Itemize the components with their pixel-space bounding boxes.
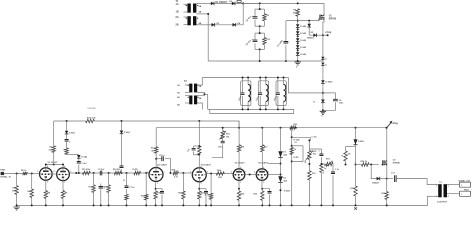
net flag box [237,0,241,2]
diode D4 [233,23,236,27]
svg-text:D 0A2: D 0A2 [300,46,307,49]
wire D6 to source [380,178,387,180]
junction V3 plate node [155,158,157,160]
junction center tap corner [207,13,209,15]
capacitor C L2 [258,93,262,95]
wire box1-box2 [259,26,261,33]
wire U1 gate stub [318,19,320,21]
R2 branch wire [263,33,265,37]
wire amp ground rail [17,196,431,205]
zener diode DZ7 [321,80,325,83]
junction plate V2 [62,164,64,166]
wire T1 center tap [197,14,209,61]
junction sig d [126,172,128,174]
wire fb branch [182,173,184,191]
svg-text:R33: R33 [350,188,354,190]
junction L2 coil top [265,77,267,79]
svg-text:1N4007: 1N4007 [307,37,315,40]
wire V1 cathode [45,180,47,190]
wire R31 gnd [308,180,310,205]
junction R32 gnd [320,204,322,206]
junction V4 RC top [198,145,200,147]
wire DZ13 top [355,128,357,139]
wire shunt v126 [126,173,128,186]
wire coupling branch [156,158,161,160]
wire sig e drop [210,174,212,194]
capacitor C5 [65,140,69,142]
wire V6 cath stub [261,189,263,191]
T2 left stub 1 [185,84,189,86]
wire R17 to plate node [155,153,157,169]
trimmer RV3 arrow [326,161,332,167]
wire R38 bottom [345,161,347,165]
T2 phase dot b [197,85,198,86]
wire R33 top [355,165,357,187]
junction C16 gnd [332,204,334,206]
wire heater feed [288,78,323,93]
junction C14 gnd [269,204,271,206]
svg-text:6: 6 [240,167,241,169]
svg-text:4: 4 [448,195,449,198]
wire choke bottom rail [208,109,294,113]
wire net rung1 [292,137,311,140]
junction L1 coil bottom [247,108,249,110]
wire R16 gnd [145,200,147,206]
wire RV2 mid [308,160,310,171]
wire V4 cathode [198,182,200,188]
junction box1 top [259,8,261,10]
wire R13 gnd [93,192,95,205]
ground x-mark [354,207,357,210]
choke L3 coil bottom stub [283,102,285,110]
transformer T1 primary/secondary winding 1 [187,4,190,13]
wire V4 Cbot stub [193,152,195,155]
choke L3 cap bottom stub [277,96,279,109]
svg-text:V6 12AU7: V6 12AU7 [258,161,269,164]
wire RV3 down [332,164,334,172]
trimmer RV1 [221,131,224,139]
svg-text:1: 1 [245,171,246,173]
svg-text:C9 1u: C9 1u [159,155,165,157]
wire T2 center tap down [205,94,208,109]
resistor R22 cathode V4 [198,191,201,199]
junction net1 a [291,136,293,138]
junction R3 top [297,2,299,4]
wire R24 gnd [210,199,212,205]
svg-text:HEATER: HEATER [88,107,97,110]
junction rail B DZ [355,127,357,129]
svg-text:1: 1 [164,171,165,173]
choke L3 cap top stub [277,78,279,93]
heater choke L1 outline [241,81,251,106]
wire R32 gnd [320,173,322,206]
junction drop2 signal [121,172,123,174]
junction rectifier node [242,2,244,4]
junction gate DZ6 [308,20,310,22]
svg-text:6: 6 [47,166,48,168]
svg-text:D 1N53: D 1N53 [326,81,334,83]
wire rail A [54,120,86,122]
junction T2 center tap [204,93,206,95]
junction trimmer top [222,127,224,129]
svg-text:+Vreg: +Vreg [325,31,332,34]
junction bias gnd [280,204,282,206]
junction V5 cathode [238,188,240,190]
junction heater bias [322,92,324,94]
svg-text:R13: R13 [88,187,92,189]
junction grid leak V1 [31,173,33,175]
capacitor C16 [331,172,335,174]
capacitor C7 coupling [100,171,102,176]
wire R6 to gnd [31,198,33,206]
wire PSU ground rail [208,60,323,62]
junction L2 coil bottom [265,108,267,110]
wire R22 gnd [198,199,200,205]
svg-text:2: 2 [54,171,55,173]
wire T2 bottom pin [197,103,202,109]
junction rail A drop2 [121,120,123,122]
junction C1 top [259,2,261,4]
junction rail B A-join [238,127,240,129]
choke L1 cap bottom stub [242,96,244,109]
wire D1 to D2 [214,2,231,4]
wire gate line U2b [369,164,379,166]
wire RV3 left [321,163,325,165]
capacitor C11 [192,148,196,150]
resistor R21 [198,146,201,155]
wire R7 to rail A [53,121,55,146]
wire Vreg down b [322,60,324,63]
capacitor C1 [253,17,258,19]
wire RV2 top [308,140,310,150]
svg-text:R20: R20 [178,193,182,195]
wire branch mid [78,158,80,161]
wire C14 branch [262,189,269,192]
wire C12 gnd [205,195,207,206]
junction R8 gnd [45,204,47,206]
svg-text:1B: 1B [177,93,180,95]
wire D2 to node [235,2,259,4]
junction rail B end [386,127,388,129]
wire choke top rail [202,77,288,79]
wire R3 to gate node [297,16,299,24]
T3 right bottom pin [447,193,459,195]
zener diode DZ14 [77,155,81,158]
wire V4 plate upper [198,121,200,146]
zener diode DZ10 [120,131,124,134]
zener diode DZ1 [296,24,300,27]
capacitor C3 [284,42,289,44]
svg-text:1: 1 [436,186,437,188]
resistor R37 [290,148,293,155]
svg-text:V1 12AU7: V1 12AU7 [48,161,59,164]
C2 branch wire [254,33,256,40]
wire U1 drain [323,12,325,14]
resistor R1 [263,14,266,21]
svg-text:K1: K1 [295,142,297,144]
wire drop2 upper [121,121,123,130]
choke L2 cap top stub [259,78,261,93]
wire grid leak V3 [145,173,147,194]
svg-text:C 10u: C 10u [129,187,135,189]
wire drop1 lower [66,141,68,148]
junction sig e2 [145,172,147,174]
wire drop1 mid [66,134,68,140]
svg-text:+Vreg: +Vreg [392,122,399,125]
diode D6 [377,177,380,181]
wire shunt R14 [108,173,110,185]
capacitor C6 [120,166,124,168]
C2 branch wire lower [254,43,256,49]
wire drop1 to branch [67,153,79,155]
svg-text:R23: R23 [218,177,222,179]
wire V3 cath stub [155,189,157,191]
junction L2 cap top [259,77,261,79]
junction gate line left [355,164,357,166]
T2 left stub 2 [185,92,189,94]
junction R4 gnd [16,204,18,206]
svg-text:3: 3 [157,183,158,185]
svg-text:SIGNAL_OUT: SIGNAL_OUT [458,180,471,183]
svg-text:V4 12AU7: V4 12AU7 [201,164,212,167]
svg-text:3: 3 [47,182,48,184]
wire V4 plate lower [198,155,200,169]
svg-text:D 0A2: D 0A2 [300,25,307,28]
resistor R33 [354,186,357,196]
svg-text:6: 6 [64,166,65,168]
filter block C1/R1 loop [255,8,264,10]
svg-text:1A: 1A [176,3,179,6]
wire C10 branch [156,189,162,192]
zener diode DZ6 [307,24,311,27]
junction net1 gnd [291,204,293,206]
wire C10 gnd [161,195,163,206]
wire C4 branch [323,93,336,99]
wire rail B [156,127,386,129]
wire drop2 mid [121,134,123,166]
svg-text:V3 12AU7: V3 12AU7 [157,164,168,167]
wire R4 to gnd [16,194,18,205]
choke L1 cap top stub [242,78,244,93]
svg-text:R27: R27 [264,147,268,149]
zener diode DZ16 [321,63,324,66]
resistor R11 series [83,171,91,174]
junction L3 cap top [277,77,279,79]
svg-text:R 100k: R 100k [294,140,301,142]
heater choke L2 outline [258,81,268,106]
capacitor C13 [221,141,225,143]
wire R8 gnd [45,199,47,206]
ground symbol PSU [295,62,301,65]
svg-text:3: 3 [448,186,449,188]
wire C15 mid [320,157,322,163]
junction R31 gnd [308,204,310,206]
wire C13 down [212,144,223,157]
diode D5 [313,33,316,37]
wire V5 cath stub [238,189,240,191]
wire V4 RC top [194,145,200,147]
wire U2 drain [386,128,388,160]
junction rail B net1 [280,127,282,129]
heater choke L3 outline [276,81,286,106]
wire V1-V2 link [52,173,57,175]
wire R33 gnd [355,196,357,205]
resistor R13 [92,185,95,193]
junction plate R mid [53,164,55,166]
junction R6 gnd [31,204,33,206]
wire R28 gnd [238,200,240,205]
resistor R35 source [385,192,388,200]
wire V4 cath stub [198,189,200,191]
junction R28 gnd [238,204,240,206]
triode V5 [233,169,245,181]
svg-text:D 0A2: D 0A2 [300,32,307,35]
T2 phase dot c [188,97,189,98]
resistor R12b series [134,171,141,174]
wire PSU top rail [243,3,324,12]
wire signal V4-V5 [206,173,233,175]
junction RV3 left [320,163,322,165]
zener diode DZ13 [354,139,358,145]
junction R20 gnd [182,204,184,206]
resistor R28 cathode V5 [237,191,240,200]
junction sig b [93,172,95,174]
junction L2 cap bottom [259,108,261,110]
wire R35 gnd [386,200,388,206]
MOSFET U1 [319,15,321,20]
resistor R19 grid stopper V4 [173,171,179,174]
junction L3 cap bottom [277,108,279,110]
junction box2 top [259,32,261,34]
svg-text:1: 1 [461,194,462,196]
ground symbol heater bias [320,111,326,114]
resistor R16 grid leak V3 [145,194,148,200]
wire C19 lower [126,189,128,194]
junction L1 cap top [242,77,244,79]
T1 phase dot d [197,18,198,19]
svg-text:R34 1k: R34 1k [361,160,368,163]
T2 phase dot d [197,97,198,98]
wire net1 bottom [291,184,293,206]
choke L3 coil top stub [283,78,285,85]
+Vreg arrow head [389,121,392,124]
ground symbol amp left [13,207,19,210]
inductor L3 [284,85,286,102]
svg-text:R12 47k: R12 47k [113,168,121,171]
junction zener chain 3 [297,42,299,44]
wire zener chain 2 [297,34,299,38]
wire D4 to rectifier node [236,3,243,24]
svg-text:1N4007: 1N4007 [372,182,380,185]
junction C12 gnd [205,204,207,206]
capacitor C15 [319,154,323,156]
wire net1 vert [291,128,293,184]
C1 branch wire lower [254,20,256,26]
junction fb node V4 [182,172,184,174]
junction gate U2 [370,164,372,166]
zener diode DZ11 [278,151,282,157]
T2 phase dot a [188,85,189,86]
transformer T2 winding 2 [189,96,192,105]
junction box1 bottom [259,25,261,27]
junction R22 gnd [198,204,200,206]
svg-text:R29: R29 [253,194,257,196]
wire R18 gnd [155,199,157,205]
wire R20 gnd [182,199,184,205]
T1 phase dot a [186,5,187,6]
svg-text:2: 2 [37,171,38,173]
svg-text:D 0A2: D 0A2 [300,53,307,56]
wire DZ8 to gnd [322,103,324,111]
junction sig e [210,173,212,175]
wire R9 gnd [62,199,64,206]
choke L1 coil bottom stub [247,102,249,110]
wire D5 to Vreg node [317,34,328,36]
capacitor C14 [268,192,272,194]
junction L3 coil top [283,77,285,79]
wire R15 gnd [126,200,128,206]
trimmer RV3 [326,162,333,165]
wire zener chain bottom [297,55,299,61]
+Vreg terminal arrow [387,123,391,128]
junction box2 bottom [259,48,261,50]
junction sig a [75,172,77,174]
wire V6 plate feed [261,128,263,145]
wire signal stage1 [69,172,149,174]
wire V1 plate [45,165,47,168]
wire R14 gnd [108,192,110,205]
junction zener chain 2 [297,35,299,37]
input connector P1 [1,172,4,175]
resistor R9 cathode V2 [61,191,64,199]
junction rail B V6 [261,127,263,129]
junction input shunt [16,173,18,175]
output connector P3 [459,191,470,196]
svg-text:D 0A2: D 0A2 [81,156,88,159]
junction V4 cathode [198,188,200,190]
wire V5-V6 link [245,174,256,176]
svg-text:1: 1 [461,185,462,187]
wire zener chain 4 [297,48,299,52]
svg-text:100n: 100n [339,103,344,105]
svg-text:2: 2 [254,171,255,173]
junction net1 c [291,160,293,162]
triode V1 [40,168,53,181]
T3 left bottom pin [428,195,439,197]
capacitor C10 cathode bypass [160,192,164,194]
junction zener gnd [297,60,299,62]
resistor R3 [296,9,299,16]
zener diode DZ12 [278,176,282,182]
resistor R17 plate V3 [155,147,158,153]
wire source down [386,179,388,192]
wire bias vert mid [280,158,282,176]
diode D1 [211,2,214,6]
junction L1 cap bottom [242,108,244,110]
output connector P2 [459,182,470,187]
wire R19 to V4 [178,172,192,174]
wire R38 top [346,146,356,148]
resistor R38 [344,151,347,161]
junction source-Vreg [322,34,324,36]
svg-text:R10 4.7k: R10 4.7k [87,117,97,120]
svg-text:2B: 2B [176,23,179,26]
resistor R18 cathode V3 [154,191,157,199]
svg-text:C7 4n7: C7 4n7 [98,168,104,171]
svg-text:SIGNAL_IN: SIGNAL_IN [0,176,11,179]
wire bias vert upper [280,128,282,151]
zener diode DZ4 [296,45,300,48]
